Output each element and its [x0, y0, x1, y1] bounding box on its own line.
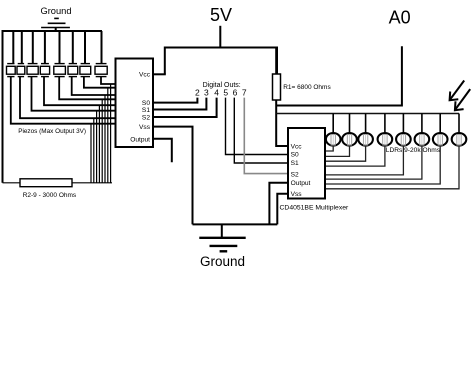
- wire LDR 1 to U2 channel pin: [325, 146, 333, 151]
- wire D6 to U2 S1: [234, 98, 288, 163]
- svg-text:S2: S2: [291, 172, 299, 179]
- svg-text:A0: A0: [389, 8, 411, 28]
- wire P3 branch to R2-9 bus: [96, 111, 98, 183]
- wire P7 to U1 channel pin: [84, 77, 116, 88]
- wire P4 branch to R2-9 bus: [98, 105, 100, 183]
- wire P2 to U1 channel pin: [20, 77, 116, 119]
- svg-text:S0: S0: [291, 151, 299, 158]
- svg-text:LDRs 9-20k Ohms: LDRs 9-20k Ohms: [386, 147, 441, 154]
- piezo P4: [40, 31, 49, 77]
- wire LDR 2 to U2 channel pin: [325, 146, 350, 157]
- wire D4 to U1 S2: [153, 98, 217, 117]
- LDR 2: [342, 114, 357, 146]
- wire P1 branch to R2-9 bus: [90, 124, 92, 183]
- wire LDR 7 to U2 channel pin: [325, 146, 440, 184]
- svg-text:4: 4: [214, 88, 219, 98]
- wire U2 Output to rail: [269, 183, 288, 225]
- wire D5 to U2 S0: [226, 98, 289, 155]
- svg-text:2: 2: [195, 88, 200, 98]
- wire P5 branch to R2-9 bus: [101, 99, 103, 183]
- resistor R2-9: [20, 179, 72, 187]
- wire A0 to R1 node: [276, 46, 402, 105]
- wire left border ground to R2-9: [2, 30, 4, 183]
- wire LDR 3 to U2 channel pin: [325, 146, 366, 162]
- wire border to R2-9: [3, 182, 21, 184]
- svg-text:R2-9 - 3000 Ohms: R2-9 - 3000 Ohms: [23, 192, 77, 199]
- wire 5V to R1: [275, 48, 277, 75]
- svg-text:S2: S2: [142, 114, 150, 121]
- wire R2-9 to piezo bus: [72, 182, 112, 184]
- wire LDR 5 to U2 channel pin: [325, 146, 403, 175]
- svg-text:Ground: Ground: [40, 6, 71, 16]
- wire P6 to U1 channel pin: [72, 77, 116, 95]
- LDR 3: [358, 114, 373, 146]
- wire U1 Vss to ground rail: [153, 127, 193, 225]
- wire bottom ground rail: [193, 223, 278, 225]
- wire P8 branch to R2-9 bus: [110, 84, 112, 183]
- svg-text:Output: Output: [130, 136, 150, 143]
- resistor R1: [273, 74, 281, 100]
- piezo P8: [95, 31, 107, 77]
- wire P6 branch to R2-9 bus: [104, 95, 106, 183]
- wire P7 branch to R2-9 bus: [107, 88, 109, 183]
- LDR 4: [378, 114, 393, 146]
- wire P4 to U1 channel pin: [44, 77, 116, 106]
- wire D7 to U2 S2: [244, 98, 288, 174]
- wire P8 to U1 channel pin: [101, 77, 116, 84]
- LDR 1: [326, 114, 341, 146]
- svg-text:5V: 5V: [210, 5, 232, 25]
- wire P3 to U1 channel pin: [32, 77, 116, 111]
- light arrow 2: [455, 89, 470, 110]
- wire P2 branch to R2-9 bus: [93, 118, 95, 183]
- LDR 7: [433, 114, 448, 146]
- svg-text:Vss: Vss: [291, 191, 303, 198]
- svg-text:7: 7: [242, 88, 247, 98]
- wire LDR top bus: [276, 113, 459, 115]
- svg-text:S1: S1: [142, 107, 150, 114]
- wire U1 Output stub: [153, 139, 172, 163]
- LDR 5: [396, 114, 411, 146]
- ground symbol (bottom): [199, 224, 245, 251]
- svg-text:S0: S0: [142, 100, 150, 107]
- wire U1 Vcc pin: [153, 73, 166, 75]
- light arrow 1: [450, 81, 465, 101]
- LDR 8: [452, 114, 467, 146]
- wire R1 bottom to U2 Vcc: [276, 100, 288, 146]
- svg-text:CD4051BE Multiplexer: CD4051BE Multiplexer: [280, 204, 349, 211]
- multiplexer U1 (left CD4051): [116, 59, 154, 148]
- wire 5V stem: [219, 26, 221, 48]
- piezo P7: [80, 31, 91, 77]
- wire P5 to U1 channel pin: [59, 77, 115, 100]
- svg-text:S1: S1: [291, 160, 299, 167]
- piezo P5: [54, 31, 66, 77]
- svg-text:Vss: Vss: [139, 124, 151, 131]
- svg-text:Piezos (Max Output 3V): Piezos (Max Output 3V): [18, 128, 86, 135]
- piezo P6: [68, 31, 78, 77]
- multiplexer U2 (right CD4051): [288, 128, 325, 199]
- svg-text:5: 5: [223, 88, 228, 98]
- wire D2 to U1 S0: [153, 98, 197, 103]
- svg-text:Output: Output: [291, 180, 311, 187]
- wire LDR 8 to U2 channel pin: [325, 146, 459, 189]
- wire LDR 4 to U2 channel pin: [325, 146, 385, 167]
- svg-text:R1= 6800 Ohms: R1= 6800 Ohms: [283, 84, 331, 91]
- piezo P1: [7, 31, 16, 77]
- svg-text:Vcc: Vcc: [291, 144, 303, 151]
- wire U2 Vss to rail: [277, 194, 288, 225]
- svg-text:3: 3: [204, 88, 209, 98]
- LDR 6: [415, 114, 430, 146]
- piezo P2: [17, 31, 25, 77]
- wire P1 to U1 channel pin: [11, 77, 116, 124]
- wire LDR 6 to U2 channel pin: [325, 146, 422, 180]
- svg-text:Vcc: Vcc: [139, 71, 151, 78]
- piezo P3: [27, 31, 38, 77]
- svg-text:Ground: Ground: [200, 254, 245, 269]
- ground symbol (top, inverted): [41, 18, 70, 31]
- wire D3 to U1 S1: [153, 98, 206, 110]
- wire ground rail (top): [3, 30, 103, 32]
- svg-text:6: 6: [233, 88, 238, 98]
- wire 5V rail to U1 Vcc and R1: [165, 48, 277, 75]
